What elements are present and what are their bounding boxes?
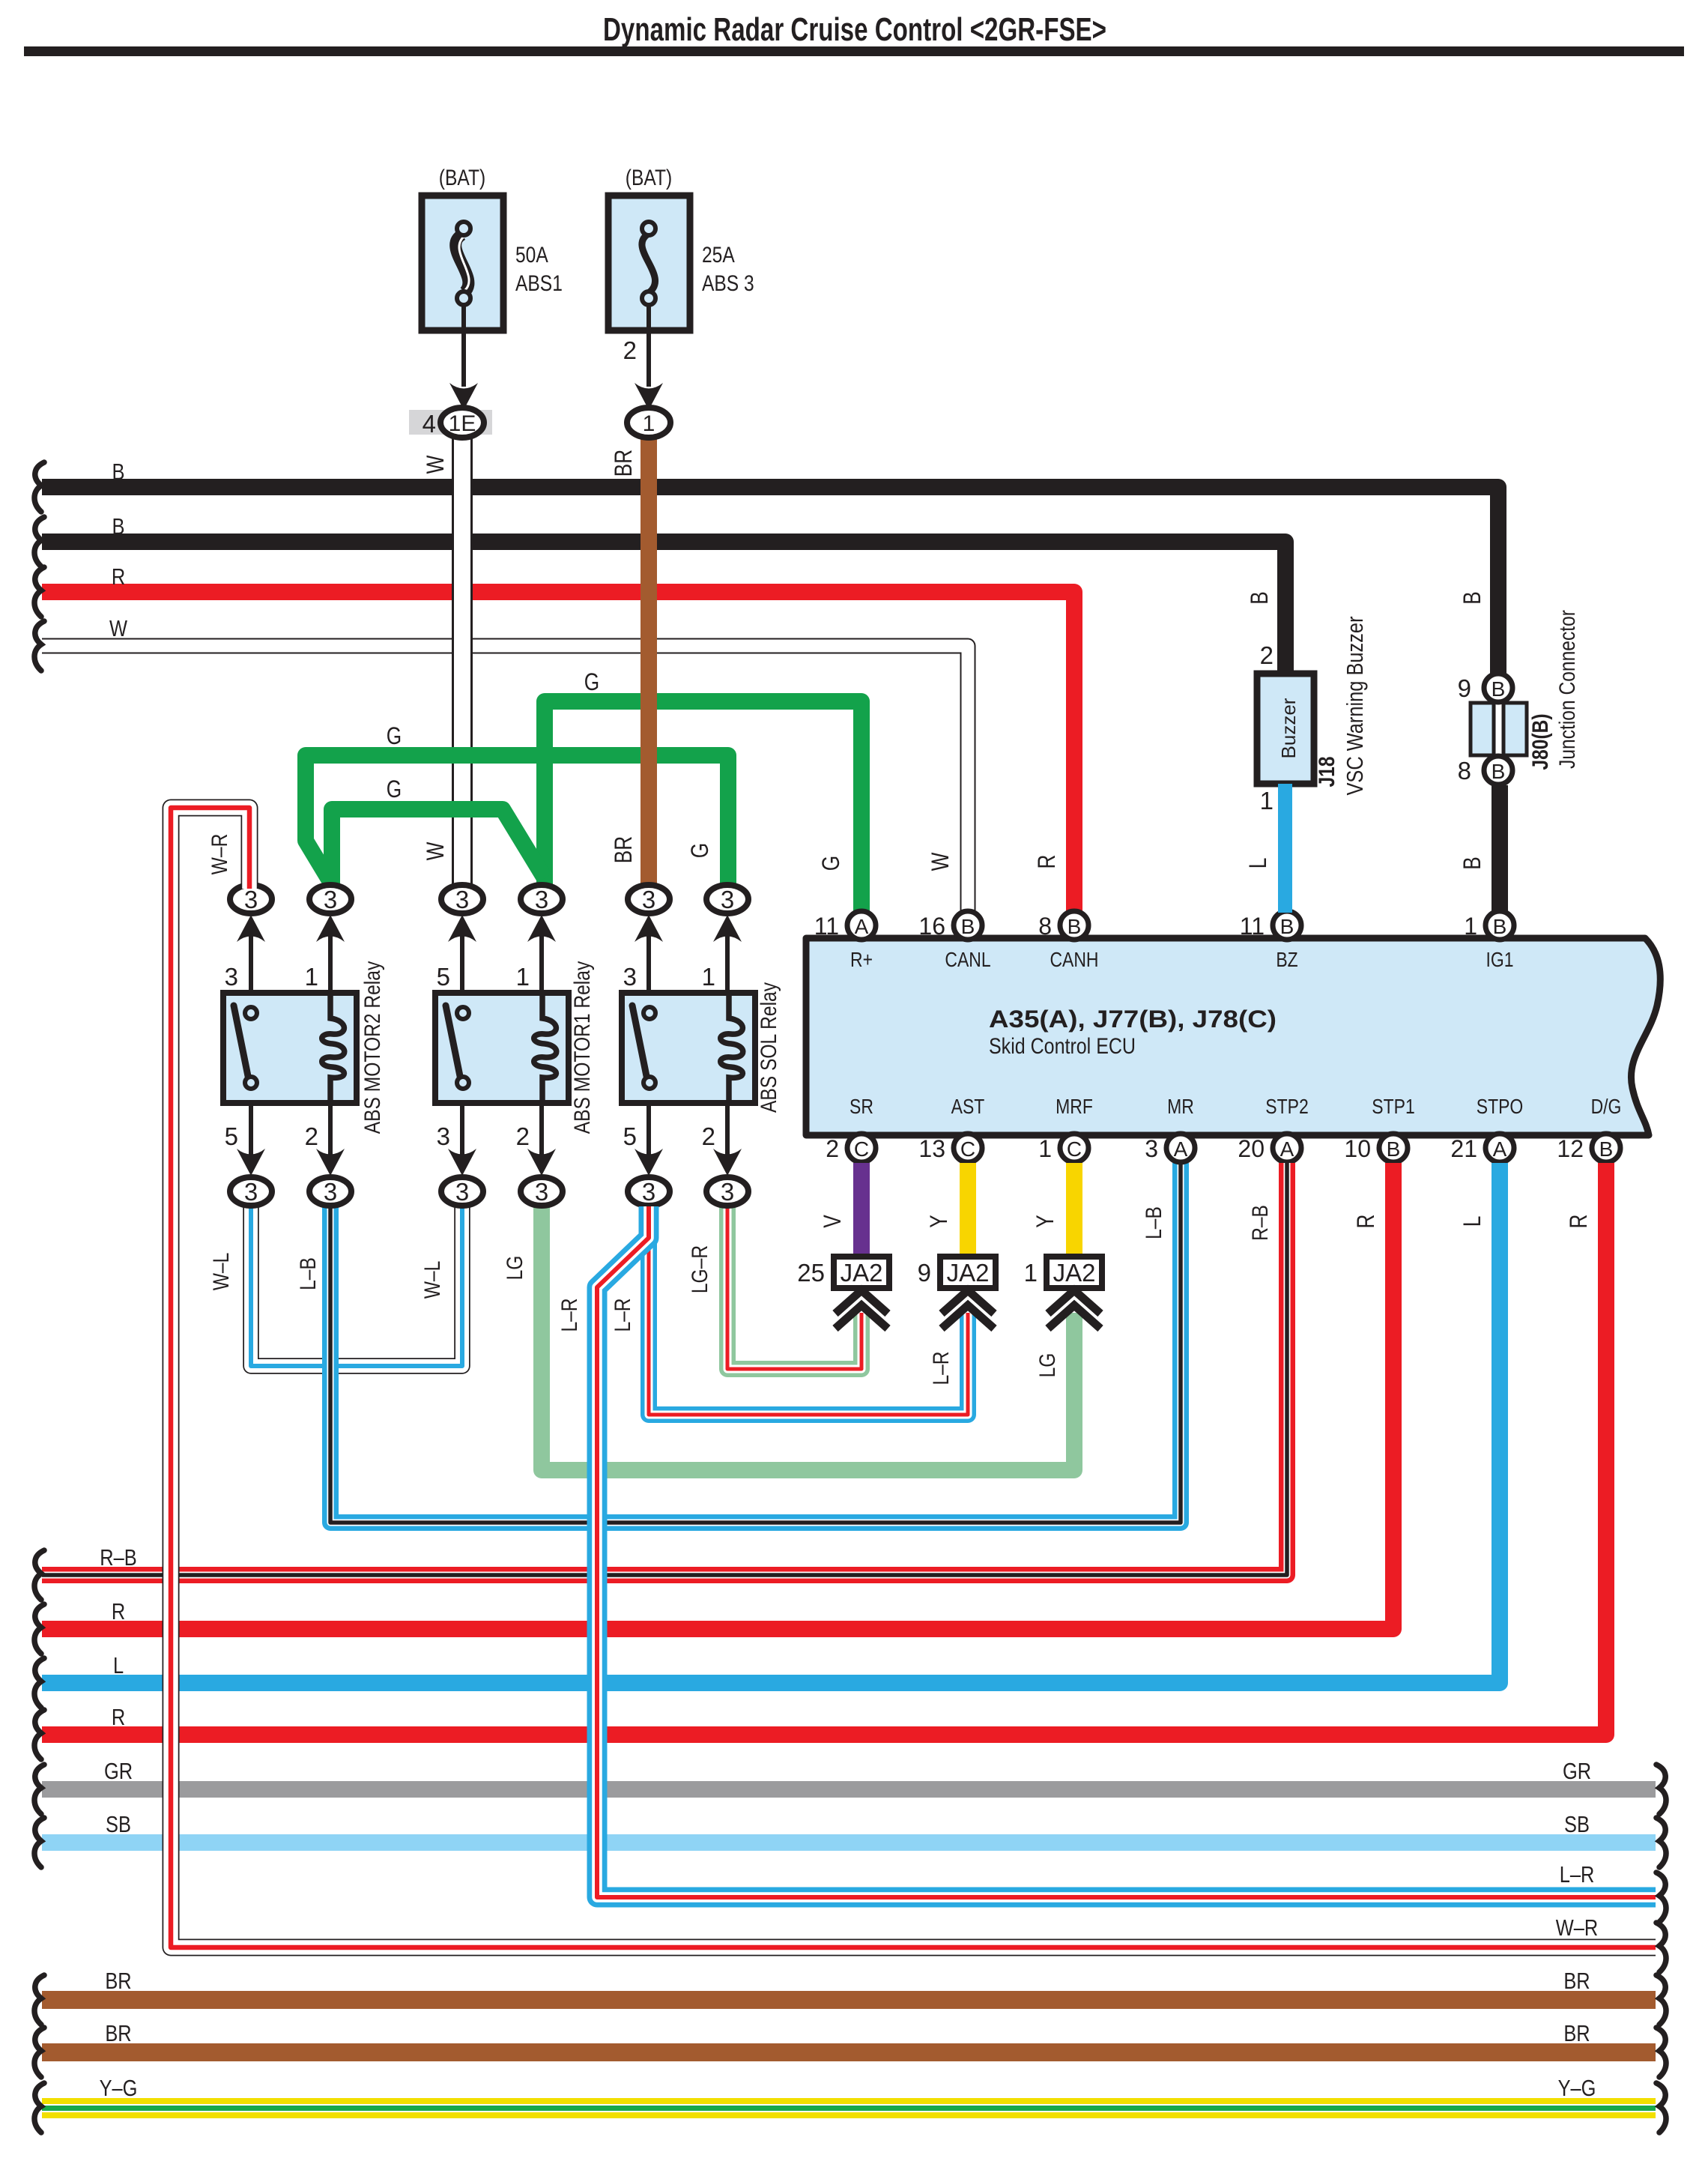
bus SB — [42, 1834, 1656, 1851]
svg-text:R: R — [112, 1599, 125, 1625]
svg-text:B: B — [1460, 591, 1486, 605]
ECU Skid Control box — [806, 938, 1660, 1135]
svg-text:JA2: JA2 — [1053, 1259, 1096, 1287]
svg-text:MRF: MRF — [1056, 1095, 1093, 1119]
arrow down into oval x971 — [713, 1149, 742, 1176]
svg-text:G: G — [584, 670, 599, 696]
arrow down into oval x617 — [448, 1149, 476, 1176]
svg-text:9: 9 — [1458, 674, 1471, 702]
svg-text:B: B — [112, 514, 125, 540]
bus W to CANL — [42, 646, 968, 911]
wire W-R hairpin to bus — [171, 808, 1656, 1947]
svg-text:11: 11 — [1240, 913, 1265, 940]
svg-text:2: 2 — [516, 1122, 530, 1150]
svg-text:1: 1 — [643, 411, 655, 436]
svg-text:3: 3 — [324, 1178, 337, 1206]
ECU top terminal 11 B — [1273, 911, 1301, 940]
ECU bottom terminal 21 A — [1486, 1134, 1514, 1162]
svg-text:3: 3 — [535, 886, 548, 913]
svg-text:C: C — [854, 1137, 869, 1161]
bus B1 squiggle — [34, 462, 44, 512]
svg-text:BR: BR — [105, 1968, 131, 1995]
svg-text:4: 4 — [423, 410, 436, 438]
svg-text:3: 3 — [244, 1178, 258, 1206]
svg-text:VSC Warning Buzzer: VSC Warning Buzzer — [1342, 616, 1369, 795]
svg-text:R: R — [112, 1705, 125, 1731]
connector 3 oval row1 x866 — [628, 885, 670, 913]
svg-text:1: 1 — [516, 963, 530, 991]
svg-text:A: A — [1280, 1137, 1294, 1161]
wire relay top pin lead x441 — [328, 935, 333, 993]
svg-text:R: R — [1566, 1215, 1593, 1229]
connector 1 oval — [627, 408, 670, 438]
wire W vertical from 1E — [453, 438, 472, 889]
svg-text:R: R — [1035, 855, 1061, 869]
svg-text:B: B — [1493, 915, 1507, 938]
svg-text:2: 2 — [826, 1135, 839, 1162]
svg-text:B: B — [1492, 677, 1506, 701]
wire relay bottom pin lead x441 — [328, 1103, 333, 1158]
arrow up into oval x723 — [527, 915, 556, 942]
svg-text:B: B — [961, 915, 975, 938]
svg-text:G: G — [387, 724, 402, 750]
svg-text:25A: 25A — [702, 242, 735, 268]
svg-text:A35(A), J77(B), J78(C): A35(A), J77(B), J78(C) — [989, 1006, 1277, 1033]
svg-text:3: 3 — [437, 1122, 450, 1150]
arrow up into oval x971 — [713, 915, 742, 942]
wire relay top pin lead x971 — [725, 935, 730, 993]
ECU bottom terminal 2 C — [847, 1134, 876, 1162]
svg-text:R: R — [112, 564, 125, 590]
svg-text:ABS MOTOR2 Relay: ABS MOTOR2 Relay — [360, 961, 385, 1134]
svg-text:W–R: W–R — [1556, 1915, 1598, 1941]
svg-text:3: 3 — [721, 886, 734, 913]
bus R squiggle — [34, 1604, 44, 1654]
svg-text:LG–R: LG–R — [687, 1245, 712, 1293]
svg-text:1: 1 — [1464, 913, 1477, 940]
svg-text:SR: SR — [850, 1095, 873, 1119]
J80 junction connector boxes — [1471, 703, 1494, 755]
svg-text:8: 8 — [1458, 757, 1471, 785]
svg-text:W: W — [928, 852, 954, 871]
wire LG relay to JA2-1 — [542, 1206, 1074, 1470]
svg-text:STPO: STPO — [1477, 1095, 1523, 1119]
svg-text:W–L: W–L — [208, 1253, 234, 1291]
wire G low — [332, 809, 545, 892]
svg-text:GR: GR — [1563, 1759, 1591, 1785]
wire B J80 to IG1 — [1492, 785, 1508, 913]
wire relay top pin lead x866 — [646, 935, 651, 993]
wire W-L U-shape — [251, 1206, 462, 1366]
svg-text:Buzzer: Buzzer — [1277, 698, 1300, 758]
arrow up into oval x441 — [316, 915, 345, 942]
svg-text:2: 2 — [1260, 641, 1274, 669]
svg-text:JA2: JA2 — [841, 1259, 883, 1287]
svg-text:L–R: L–R — [610, 1298, 635, 1332]
svg-text:13: 13 — [918, 1135, 945, 1162]
wire R-B from STP2 — [42, 1163, 1287, 1575]
svg-text:12: 12 — [1557, 1135, 1584, 1162]
svg-text:1E: 1E — [449, 411, 476, 436]
svg-text:1: 1 — [305, 963, 318, 991]
ECU top terminal 16 B — [954, 911, 982, 940]
wire relay top pin lead x617 — [460, 935, 464, 993]
svg-text:3: 3 — [721, 1178, 734, 1206]
svg-text:3: 3 — [623, 963, 637, 991]
svg-text:BR: BR — [1563, 2021, 1590, 2047]
bus R to CANH — [42, 592, 1074, 911]
svg-text:C: C — [960, 1137, 975, 1161]
svg-text:(BAT): (BAT) — [439, 165, 485, 190]
ECU bottom terminal 20 A — [1273, 1134, 1301, 1162]
title rule — [24, 46, 1684, 56]
ECU top terminal 1 B — [1486, 911, 1514, 940]
relay ABS MOTOR1 — [435, 993, 569, 1103]
svg-text:ABS 3: ABS 3 — [702, 270, 754, 296]
ECU top terminal 11 A — [847, 911, 876, 940]
arrow down into oval x866 — [635, 1149, 663, 1176]
svg-text:2: 2 — [623, 336, 637, 364]
svg-text:B: B — [1599, 1137, 1614, 1161]
svg-text:3: 3 — [225, 963, 238, 991]
svg-text:D/G: D/G — [1591, 1095, 1622, 1119]
connector 3 oval row2 x617 — [441, 1177, 483, 1206]
svg-text:J18: J18 — [1314, 756, 1339, 787]
wire Y from MRF — [1066, 1163, 1082, 1257]
connector 1E grey tag — [409, 410, 492, 435]
svg-text:W: W — [423, 455, 449, 474]
svg-text:J80(B): J80(B) — [1527, 713, 1553, 770]
arrow down into oval x441 — [316, 1149, 345, 1176]
bus BR 2 — [42, 2043, 1656, 2061]
svg-text:BR: BR — [611, 450, 638, 477]
svg-text:3: 3 — [455, 886, 469, 913]
svg-text:B: B — [1387, 1137, 1401, 1161]
svg-text:3: 3 — [455, 1178, 469, 1206]
arrow up into oval x617 — [448, 915, 476, 942]
svg-text:B: B — [1247, 591, 1274, 605]
bus R squiggle2 — [34, 1710, 44, 1759]
svg-text:9: 9 — [918, 1259, 931, 1287]
svg-text:2: 2 — [305, 1122, 318, 1150]
svg-text:CANL: CANL — [945, 949, 990, 972]
svg-text:G: G — [819, 856, 845, 871]
JA2 connector 25 — [834, 1257, 889, 1288]
connector 3 oval row2 x441 — [309, 1177, 351, 1206]
fuse ABS1 lead — [461, 305, 466, 387]
svg-text:11: 11 — [814, 913, 839, 940]
svg-text:R–B: R–B — [1247, 1205, 1273, 1241]
ECU top terminal 8 B — [1060, 911, 1088, 940]
svg-text:L–B: L–B — [295, 1257, 321, 1290]
arrow up into oval x335 — [237, 915, 265, 942]
svg-text:L–R: L–R — [1560, 1862, 1595, 1888]
svg-text:V: V — [820, 1215, 847, 1228]
svg-text:25: 25 — [797, 1259, 825, 1287]
svg-text:L–B: L–B — [1141, 1206, 1166, 1239]
svg-text:BR: BR — [611, 836, 638, 863]
svg-text:LG: LG — [502, 1256, 527, 1281]
svg-text:Y: Y — [927, 1215, 953, 1228]
svg-text:B: B — [1460, 856, 1486, 870]
relay ABS SOL — [622, 993, 755, 1103]
JA2 connector 1 — [1047, 1257, 1102, 1288]
svg-text:Dynamic Radar Cruise Control <: Dynamic Radar Cruise Control <2GR-FSE> — [603, 11, 1106, 48]
svg-text:R+: R+ — [850, 949, 873, 972]
bus R-B squiggle — [34, 1550, 44, 1600]
wire Y from AST — [960, 1163, 976, 1257]
wire relay bottom pin lead x866 — [646, 1103, 651, 1158]
bus GR — [42, 1781, 1656, 1798]
svg-text:5: 5 — [623, 1122, 637, 1150]
svg-text:IG1: IG1 — [1486, 949, 1513, 972]
svg-text:BR: BR — [1563, 1968, 1590, 1995]
svg-text:ABS1: ABS1 — [515, 270, 563, 296]
wire relay top pin lead x723 — [539, 935, 544, 993]
svg-text:W: W — [423, 841, 449, 860]
wire L-R relay to bus — [597, 1206, 1656, 1897]
svg-text:21: 21 — [1450, 1135, 1477, 1162]
wire L from STPO — [42, 1163, 1500, 1683]
wire L-R relay to JA2-9 — [649, 1206, 968, 1415]
JA2 connector 9 — [940, 1257, 996, 1288]
wire relay bottom pin lead x335 — [249, 1103, 253, 1158]
svg-text:3: 3 — [535, 1178, 548, 1206]
bus R squiggle — [34, 567, 44, 617]
svg-text:3: 3 — [324, 886, 337, 913]
svg-text:SB: SB — [1564, 1812, 1590, 1838]
connector 3 oval row1 x723 — [521, 885, 563, 913]
J80 terminal 9 — [1484, 674, 1512, 702]
arrow up into oval x866 — [635, 915, 663, 942]
J80 terminal 8 — [1484, 756, 1512, 785]
ECU bottom terminal 10 B — [1379, 1134, 1408, 1162]
svg-text:1: 1 — [1260, 787, 1274, 814]
svg-text:L–R: L–R — [557, 1298, 582, 1332]
bus W-R squiggle right — [1656, 1923, 1666, 1972]
bus W squiggle — [34, 621, 44, 671]
svg-text:B: B — [1280, 915, 1294, 938]
buzzer J18 box — [1257, 674, 1314, 784]
bus B2 to buzzer — [42, 542, 1285, 671]
svg-text:3: 3 — [642, 1178, 655, 1206]
svg-text:BR: BR — [105, 2021, 131, 2047]
wire R from D/G — [42, 1163, 1606, 1735]
bus BR 1 — [42, 1991, 1656, 2009]
svg-text:Y–G: Y–G — [100, 2076, 138, 2102]
svg-text:STP1: STP1 — [1372, 1095, 1414, 1119]
svg-text:16: 16 — [918, 913, 945, 940]
svg-text:20: 20 — [1238, 1135, 1265, 1162]
ECU bottom terminal 1 C — [1060, 1134, 1088, 1162]
wire V from SR — [853, 1163, 870, 1257]
wire R from STP1 — [42, 1163, 1393, 1629]
svg-text:G: G — [688, 843, 714, 858]
bus B1 to J80 — [42, 487, 1498, 674]
wire relay bottom pin lead x971 — [725, 1103, 730, 1158]
svg-text:JA2: JA2 — [947, 1259, 990, 1287]
wire LG-R relay to JA2-25 — [727, 1206, 861, 1369]
svg-text:L: L — [113, 1653, 124, 1679]
connector 3 oval row1 x971 — [706, 885, 748, 913]
svg-text:L: L — [1246, 858, 1272, 869]
connector 3 oval row2 x723 — [521, 1177, 563, 1206]
svg-text:ABS SOL Relay: ABS SOL Relay — [756, 982, 781, 1113]
svg-text:AST: AST — [951, 1095, 985, 1119]
svg-text:R: R — [1354, 1215, 1380, 1229]
svg-text:A: A — [1174, 1137, 1188, 1161]
svg-text:Skid Control ECU: Skid Control ECU — [989, 1034, 1136, 1059]
bus Y-G — [42, 2098, 1656, 2118]
svg-text:MR: MR — [1167, 1095, 1194, 1119]
svg-text:(BAT): (BAT) — [626, 165, 672, 190]
connector 3 oval row2 x866 — [628, 1177, 670, 1206]
svg-text:SB: SB — [106, 1812, 131, 1838]
svg-text:W–R: W–R — [207, 834, 232, 875]
svg-text:2: 2 — [702, 1122, 715, 1150]
svg-text:Y–G: Y–G — [1558, 2076, 1596, 2102]
svg-text:R–B: R–B — [100, 1545, 136, 1571]
svg-text:1: 1 — [1038, 1135, 1052, 1162]
svg-text:BZ: BZ — [1276, 949, 1297, 972]
svg-text:C: C — [1067, 1137, 1082, 1161]
svg-text:1: 1 — [702, 963, 715, 991]
connector 1E oval — [440, 408, 484, 438]
fuse ABS3 lead — [646, 305, 651, 387]
bus L-R squiggle right — [1656, 1873, 1666, 1922]
svg-text:5: 5 — [225, 1122, 238, 1150]
connector 3 oval row2 x335 — [230, 1177, 272, 1206]
svg-text:ABS MOTOR1 Relay: ABS MOTOR1 Relay — [569, 961, 595, 1134]
svg-text:3: 3 — [244, 886, 258, 913]
bus B2 squiggle — [34, 517, 44, 566]
wire L-B relay to MR — [330, 1163, 1181, 1523]
wire G mid — [306, 755, 728, 892]
connector 3 oval row1 x441 — [309, 885, 351, 913]
svg-text:B: B — [1067, 915, 1082, 938]
svg-text:CANH: CANH — [1050, 949, 1098, 972]
svg-text:W: W — [109, 616, 127, 642]
relay ABS MOTOR2 — [223, 993, 357, 1103]
connector 3 oval row2 x971 — [706, 1177, 748, 1206]
bus L squiggle — [34, 1658, 44, 1708]
arrow down into oval x723 — [527, 1149, 556, 1176]
svg-text:Y: Y — [1033, 1215, 1059, 1228]
ECU bottom terminal 12 B — [1592, 1134, 1620, 1162]
svg-text:3: 3 — [642, 886, 655, 913]
ECU bottom terminal 3 A — [1166, 1134, 1195, 1162]
svg-text:GR: GR — [104, 1759, 133, 1785]
svg-text:B: B — [1492, 760, 1506, 783]
wire L buzzer to BZ — [1278, 784, 1292, 913]
connector 3 oval row1 x335 — [230, 885, 272, 913]
wire relay bottom pin lead x723 — [539, 1103, 544, 1158]
arrow down into oval x335 — [237, 1149, 265, 1176]
svg-text:8: 8 — [1038, 913, 1052, 940]
svg-text:G: G — [387, 777, 402, 803]
svg-text:STP2: STP2 — [1265, 1095, 1308, 1119]
svg-text:LG: LG — [1035, 1353, 1060, 1378]
wire relay bottom pin lead x617 — [460, 1103, 464, 1158]
wire BR vertical from 1 — [640, 438, 657, 887]
svg-text:L: L — [1460, 1216, 1486, 1227]
wire G top — [545, 701, 861, 913]
svg-text:1: 1 — [1024, 1259, 1038, 1287]
svg-text:A: A — [855, 915, 869, 938]
svg-text:W–L: W–L — [420, 1261, 445, 1299]
svg-text:B: B — [112, 459, 125, 486]
connector 3 oval row1 x617 — [441, 885, 483, 913]
svg-text:3: 3 — [1145, 1135, 1158, 1162]
svg-text:Junction Connector: Junction Connector — [1554, 610, 1580, 769]
svg-text:L–R: L–R — [928, 1351, 954, 1385]
svg-text:5: 5 — [437, 963, 450, 991]
svg-text:A: A — [1493, 1137, 1507, 1161]
ECU bottom terminal 13 C — [954, 1134, 982, 1162]
svg-text:10: 10 — [1344, 1135, 1371, 1162]
wire relay top pin lead x335 — [249, 935, 253, 993]
svg-text:50A: 50A — [515, 242, 548, 268]
